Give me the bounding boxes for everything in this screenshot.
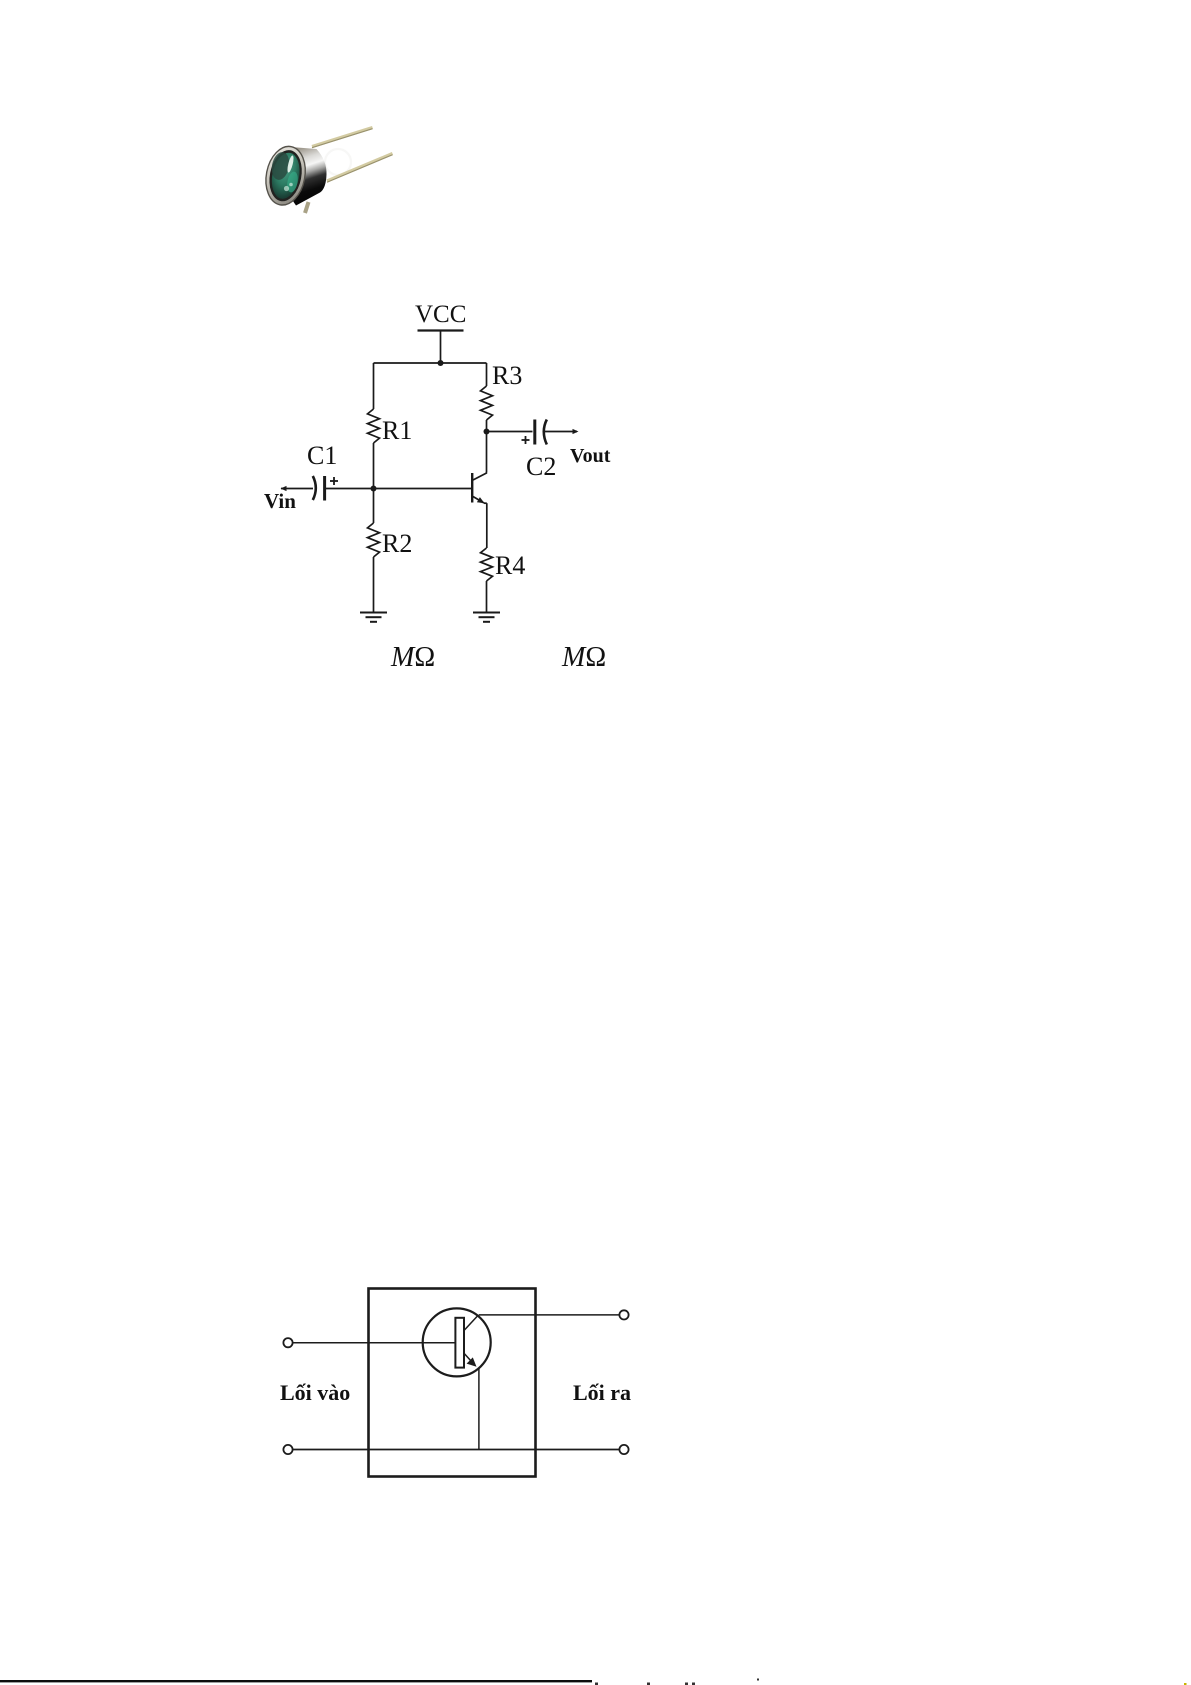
terminal input top xyxy=(283,1338,292,1347)
capacitor C1 xyxy=(313,476,325,501)
resistor R2 xyxy=(368,523,380,557)
resistor R3 xyxy=(481,386,493,420)
terminal output top xyxy=(619,1310,628,1319)
capacitor C2 xyxy=(535,420,547,445)
transistor circle xyxy=(423,1308,491,1376)
wire bottom rail xyxy=(293,1449,620,1451)
lens light spots xyxy=(284,183,293,191)
junction dot collector node xyxy=(484,429,490,435)
svg-text:R2: R2 xyxy=(382,529,412,558)
pin 2 (lower lead) xyxy=(327,154,393,183)
output arrow xyxy=(573,429,579,434)
can face inner dark ring xyxy=(265,147,306,204)
footer text remnants xyxy=(595,1679,1187,1685)
svg-text:MΩ: MΩ xyxy=(561,642,606,673)
svg-text:Vout: Vout xyxy=(570,445,611,467)
wire input top lead xyxy=(293,1342,455,1344)
transistor Q1 xyxy=(471,432,487,504)
bottom stub lead xyxy=(305,202,309,213)
svg-text:R4: R4 xyxy=(495,551,525,580)
lens bright streak xyxy=(286,155,295,173)
terminal input bottom xyxy=(283,1445,292,1454)
transistor base bar xyxy=(455,1318,464,1368)
junction dot base node xyxy=(371,486,377,492)
circuit schematic: common-emitter amplifier xyxy=(264,301,611,622)
wire top rail xyxy=(374,362,487,364)
footer rule xyxy=(0,1680,592,1682)
photodiode photo xyxy=(261,128,392,214)
terminal output bottom xyxy=(619,1445,628,1454)
plus sign C1 xyxy=(330,477,338,485)
collector diagonal xyxy=(464,1315,479,1331)
power VCC bar xyxy=(418,329,464,331)
junction dot VCC/top rail xyxy=(438,360,444,366)
wire R4 bottom lead xyxy=(486,581,488,612)
wire R3 bottom to collector node xyxy=(486,420,488,432)
svg-text:R1: R1 xyxy=(382,416,412,445)
lens emerald glow xyxy=(286,171,300,194)
svg-text:MΩ: MΩ xyxy=(390,642,435,673)
wire R3 top lead xyxy=(486,363,488,386)
svg-text:Lối ra: Lối ra xyxy=(573,1380,631,1405)
wire R1 bottom to base node xyxy=(373,443,375,523)
resistor R4 xyxy=(481,548,493,581)
faint watermark ring xyxy=(325,149,351,175)
wire VCC stem xyxy=(440,331,442,364)
svg-text:Lối vào: Lối vào xyxy=(280,1380,350,1405)
input arrow xyxy=(281,486,287,491)
wire collector to output terminal xyxy=(479,1314,620,1316)
pin 1 (upper lead) xyxy=(312,128,373,148)
wire C2 to output xyxy=(545,431,577,433)
wire R1 top lead xyxy=(373,363,375,409)
can face outer rim xyxy=(261,143,310,208)
ground symbol right xyxy=(473,613,500,622)
wire emitter to R4 xyxy=(486,503,488,548)
wire R2 bottom lead xyxy=(373,557,375,612)
two-port block diagram xyxy=(283,1289,628,1477)
svg-text:C2: C2 xyxy=(526,452,556,481)
ground symbol left xyxy=(360,613,387,622)
lens dark upper-left shade xyxy=(269,151,291,182)
svg-text:C1: C1 xyxy=(307,441,337,470)
wire input lead xyxy=(281,488,313,490)
svg-text:Vin: Vin xyxy=(264,489,296,513)
block box xyxy=(369,1289,536,1477)
wire emitter down xyxy=(478,1369,480,1450)
plus sign C2 xyxy=(522,436,530,444)
svg-text:R3: R3 xyxy=(492,361,522,390)
emitter diagonal with arrow xyxy=(464,1353,477,1367)
lens xyxy=(268,150,303,201)
svg-text:VCC: VCC xyxy=(415,301,466,328)
wire base xyxy=(325,488,471,490)
wire collector node to C2 xyxy=(487,431,533,433)
resistor R1 xyxy=(368,409,380,443)
can body xyxy=(283,147,327,206)
